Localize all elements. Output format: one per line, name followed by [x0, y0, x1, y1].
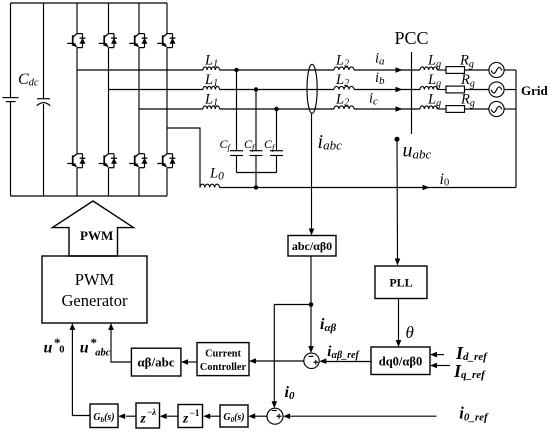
wire abc/ab0 to sum iab [310, 256, 312, 347]
block z-lambda [136, 403, 160, 428]
transistor S4 bottom of leg 2 [99, 154, 117, 168]
wire phase c to grid bus [504, 108, 516, 110]
arrow into sum iab [308, 346, 314, 353]
label Cf phase b [244, 137, 256, 152]
wire phase b to grid bus [504, 89, 516, 91]
wire phase a after L1 [220, 69, 335, 71]
label Cdc [18, 71, 39, 89]
arrow iabc into abc/ab0 [309, 229, 315, 236]
wire phase a to Rg [438, 69, 447, 71]
current sensor ellipse iabc [307, 64, 317, 113]
resistor Rg phase c [446, 106, 465, 113]
svg-text:αβ/abc: αβ/abc [137, 355, 174, 370]
svg-text:Cf: Cf [220, 137, 232, 152]
node iab branch [309, 302, 314, 307]
label theta [406, 323, 414, 342]
wire phase c to Rg [438, 108, 447, 110]
label Grid [521, 83, 548, 98]
arrow i0ref into sum i0 [283, 413, 290, 419]
wire phase b after L1 [220, 89, 335, 91]
transistor S6 bottom of leg 3 [129, 154, 147, 168]
svg-text:PWM: PWM [80, 228, 113, 243]
label Lg phase c [427, 92, 441, 110]
wire phase a to grid bus [504, 69, 516, 71]
svg-text:ic: ic [369, 91, 378, 108]
svg-text:Gb(s): Gb(s) [93, 412, 114, 424]
svg-text:abc: abc [95, 347, 111, 358]
svg-text:Lg: Lg [427, 72, 441, 90]
arrow theta into dq0 [396, 340, 402, 347]
label iab_ref [327, 344, 360, 361]
label L2 phase c [335, 92, 349, 109]
inductor L2 phase b [334, 86, 354, 89]
label iab [320, 316, 337, 334]
svg-text:Generator: Generator [62, 291, 128, 310]
svg-text:ib: ib [375, 70, 385, 87]
PCC bus line [411, 52, 413, 134]
inverter leg 2 wire [108, 3, 110, 196]
label Lg phase b [427, 72, 441, 90]
wire uabc measurement [396, 139, 399, 259]
inductor L1 phase b [203, 86, 219, 89]
ac source phase c [489, 101, 504, 116]
ac source phase b [489, 82, 504, 97]
wire Cf star tie [237, 172, 277, 174]
svg-text:L0: L0 [209, 166, 224, 183]
svg-text:Rg: Rg [460, 92, 475, 110]
inductor L0 [200, 184, 220, 187]
svg-text:Id_ref: Id_ref [455, 343, 488, 363]
svg-text:uabc: uabc [403, 140, 432, 162]
svg-text:Iq_ref: Iq_ref [453, 361, 486, 381]
resistor Rg phase a [446, 67, 465, 74]
wire bottom DC rail [11, 195, 168, 197]
ac source phase a [489, 62, 504, 77]
wire top DC rail [11, 2, 168, 4]
label Cf phase a [220, 137, 232, 152]
arrow ic [396, 106, 403, 112]
wire phase a to source [465, 69, 490, 71]
wire branch to sum i0 [274, 305, 311, 403]
arrow dq0 to sum iab [319, 358, 371, 364]
svg-text:Controller: Controller [200, 362, 247, 373]
arrow i0 direction [423, 185, 430, 191]
node phase c filter tap [274, 107, 278, 111]
wire Cf star to neutral [255, 173, 257, 188]
label L2 phase a [335, 53, 349, 70]
capacitor Cf phase a [230, 70, 243, 173]
resistor Rg phase b [446, 86, 465, 93]
inductor L1 phase a [203, 67, 219, 70]
svg-text:L1: L1 [204, 53, 218, 70]
inductor Lg phase b [420, 86, 438, 89]
svg-text:Cf: Cf [244, 137, 256, 152]
label Cf phase c [264, 137, 276, 152]
svg-text:Grid: Grid [521, 83, 548, 98]
wire grid return bus [515, 70, 517, 188]
label PCC [395, 28, 429, 48]
arrow uabc into PLL [395, 259, 401, 266]
inductor Lg phase a [420, 67, 438, 70]
label Rg phase c [460, 92, 475, 110]
block PWM Generator [42, 256, 147, 323]
transistor S5 top of leg 3 [129, 34, 147, 48]
transistor S3 top of leg 2 [99, 34, 117, 48]
inductor L2 phase c [334, 106, 354, 109]
battery DC source [3, 3, 19, 196]
block Gb(s) [90, 404, 118, 428]
svg-text:Cdc: Cdc [18, 71, 39, 89]
node uabc tap [395, 137, 400, 142]
svg-text:PWM: PWM [75, 270, 115, 289]
wire phase a from leg 1 [77, 69, 203, 71]
block ab/abc [131, 348, 181, 376]
arrow G0 to z-1 [203, 413, 220, 419]
wire neutral i0 line [220, 187, 517, 189]
label iabc [318, 131, 343, 153]
svg-text:Cf: Cf [264, 137, 276, 152]
label uabc [403, 140, 432, 162]
inverter leg 4 wire [166, 3, 168, 196]
label ic [369, 91, 378, 108]
block Current Controller [197, 343, 249, 376]
summing junction i0 [267, 408, 283, 424]
label i0 into sum [285, 384, 295, 402]
svg-text:Rg: Rg [460, 72, 475, 90]
transistor S1 top of leg 1 [67, 34, 85, 48]
label L1 phase b [204, 72, 218, 89]
svg-text:Lg: Lg [427, 53, 441, 71]
arrow u*abc into PWM Generator [108, 323, 114, 330]
wire phase b to Rg [438, 89, 447, 91]
svg-text:L2: L2 [335, 72, 349, 89]
label u*0 [44, 335, 65, 356]
svg-text:Rg: Rg [459, 53, 474, 71]
label ib [375, 70, 385, 87]
wire phase c after L1 [220, 108, 335, 110]
svg-text:iabc: iabc [318, 131, 343, 153]
svg-text:iαβ_ref: iαβ_ref [327, 344, 360, 361]
wire phase b from leg 2 [109, 89, 204, 91]
arrow z-1 to z-lambda [160, 413, 178, 419]
label i0ref [459, 404, 489, 424]
svg-text:ia: ia [375, 50, 385, 67]
block dq0/ab0 [371, 347, 430, 375]
svg-text:L1: L1 [204, 92, 218, 109]
svg-text:u: u [44, 339, 53, 356]
transistor S2 bottom of leg 1 [67, 154, 85, 168]
svg-text:z: z [140, 411, 147, 426]
arrow z-lambda to Gb [118, 413, 136, 419]
inverter leg 1 wire [76, 3, 78, 196]
inverter leg 3 wire [138, 3, 140, 196]
label Lg phase a [427, 53, 441, 71]
arrow ia [396, 67, 403, 73]
wire phase b to source [465, 89, 490, 91]
svg-text:G0(s): G0(s) [223, 412, 244, 424]
label u*abc [80, 335, 111, 358]
wire theta PLL to dq0 [398, 299, 400, 341]
label Rg phase a [459, 53, 474, 71]
block PLL [375, 266, 427, 299]
capacitor Cf phase c [270, 109, 283, 173]
wire neutral from leg 4 [167, 128, 200, 188]
wire iabc measurement [311, 113, 313, 229]
svg-text:iαβ: iαβ [320, 316, 337, 334]
block G0(s) [220, 405, 248, 427]
svg-text:z: z [182, 411, 189, 426]
label L1 phase c [204, 92, 218, 109]
transistor S7 top of leg 4 [157, 34, 175, 48]
svg-text:abc/αβ0: abc/αβ0 [292, 239, 332, 253]
svg-text:−λ: −λ [147, 407, 156, 417]
arrow ib [396, 87, 403, 93]
wire Gb to u*0 riser [72, 415, 90, 417]
inductor L2 phase a [334, 67, 354, 70]
svg-text:0: 0 [59, 344, 64, 355]
label i0 line [440, 171, 450, 189]
svg-text:L2: L2 [335, 53, 349, 70]
svg-text:Current: Current [205, 349, 241, 360]
arrow sum i0 to G0 [248, 413, 267, 419]
svg-text:i0: i0 [440, 171, 450, 189]
label L2 phase b [335, 72, 349, 89]
svg-text:u: u [80, 339, 89, 356]
node phase a filter tap [234, 68, 238, 72]
label L1 phase a [204, 53, 218, 70]
arrow Iq_ref into dq0 [430, 363, 450, 369]
svg-text:PCC: PCC [395, 28, 429, 48]
svg-text:PLL: PLL [389, 276, 412, 290]
svg-text:i0_ref: i0_ref [459, 404, 489, 424]
wire u*abc from ab/abc up [111, 329, 131, 362]
label Id_ref [455, 343, 488, 363]
svg-text:Lg: Lg [427, 92, 441, 110]
arrow Current Controller to ab/abc [181, 359, 197, 365]
block z-1 [178, 405, 203, 428]
wire phase c to source [465, 108, 490, 110]
arrow into sum i0 [272, 401, 278, 408]
svg-text:dq0/αβ0: dq0/αβ0 [379, 355, 422, 369]
capacitor Cdc [37, 3, 50, 196]
label ia [375, 50, 385, 67]
block abc/ab0 [288, 236, 336, 257]
svg-text:−1: −1 [190, 408, 200, 418]
wire phase c to grid [354, 108, 420, 110]
transistor S8 bottom of leg 4 [157, 154, 175, 168]
inductor Lg phase c [420, 106, 438, 109]
svg-text:L1: L1 [204, 72, 218, 89]
svg-text:i0: i0 [285, 384, 295, 402]
capacitor Cf phase b [250, 90, 263, 173]
svg-text:θ: θ [406, 323, 414, 342]
wire phase b to grid [354, 89, 420, 91]
wire phase a to grid [354, 69, 420, 71]
label Iq_ref [453, 361, 486, 381]
arrow sum iab to Current Controller [249, 358, 304, 364]
inductor L1 phase c [203, 106, 219, 109]
label L0 [209, 166, 224, 183]
label Rg phase b [460, 72, 475, 90]
label PWM in arrow [80, 228, 113, 243]
summing junction iab [304, 353, 319, 368]
arrow Id_ref into dq0 [430, 352, 444, 358]
wire u*0 feedback up [71, 329, 73, 416]
svg-text:L2: L2 [335, 92, 349, 109]
PWM block arrow [52, 201, 133, 256]
wire phase c from leg 3 [139, 108, 203, 110]
node Cf neutral junction [254, 185, 258, 189]
node phase b filter tap [254, 87, 258, 91]
arrow u*0 into PWM Generator [70, 323, 76, 330]
wire i0ref [289, 415, 437, 417]
